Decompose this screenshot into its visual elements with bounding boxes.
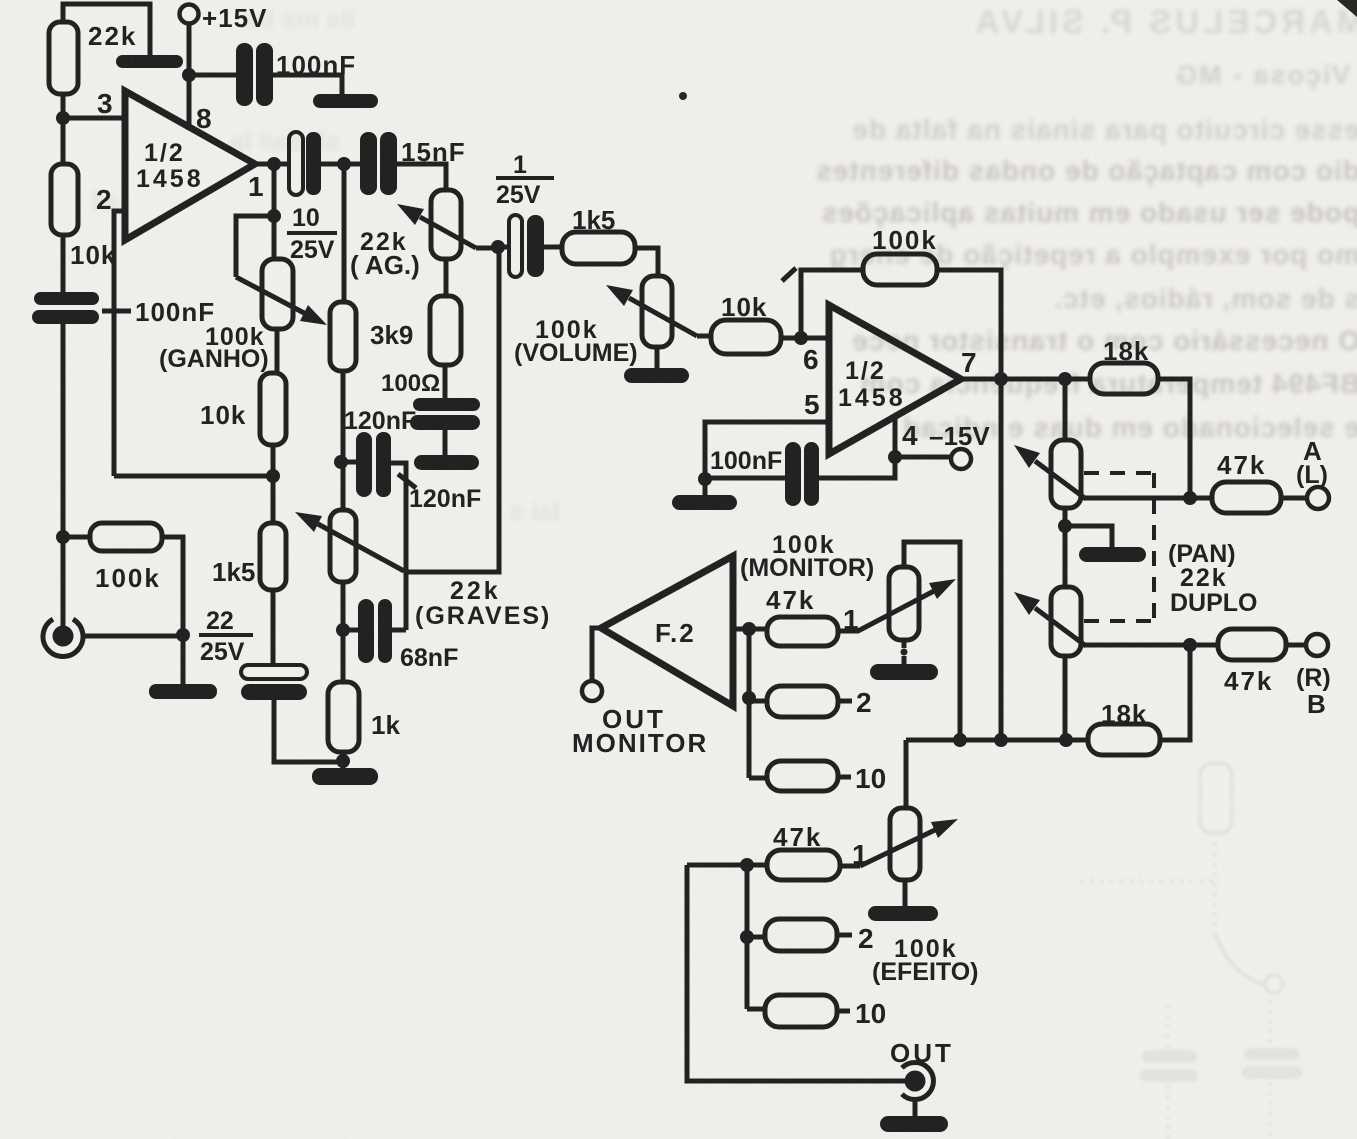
label A (L) [1296, 436, 1328, 489]
label (R) B [1296, 664, 1331, 719]
wire node to 100k [63, 535, 90, 540]
wire node to 1/25V cap [498, 245, 510, 250]
wire gain wiper loop [236, 216, 274, 277]
wire 15nF to treble pot [397, 164, 446, 190]
pin 8 stub [187, 75, 192, 130]
wire ground node down [181, 635, 186, 686]
capacitor 1/25V electrolytic [509, 215, 522, 277]
wire tap 10 stub (effect) [837, 1009, 850, 1014]
wire 68nF node down to 1k [341, 630, 346, 682]
wire node to 120nF [341, 460, 357, 465]
wire node to tap 10 (effect) [747, 1007, 765, 1012]
node mid junction [337, 157, 351, 171]
terminal OUT MONITOR [582, 681, 602, 701]
ground bar (input) [149, 684, 217, 699]
capacitor 120nF (upper) [356, 432, 391, 497]
capacitor 100nF (input coupling) [32, 292, 99, 324]
wire +15V down [187, 23, 192, 75]
node output junction [267, 157, 281, 171]
wire pan1 wiper to A node [1084, 496, 1190, 501]
wire feedback to output [937, 270, 1001, 379]
label OUT MONITOR [572, 704, 708, 758]
node monitor tap 2 junction [742, 691, 756, 705]
wire pan1 bottom to pan2 top [1063, 508, 1068, 587]
wire 120nF right plate vertical tie [391, 463, 406, 630]
wire effect pot bottom [903, 880, 908, 908]
node pan center junction [1058, 519, 1072, 533]
wire node to 100nF [705, 476, 786, 481]
label 10/25V [290, 204, 335, 264]
wire monitor taps vertical [747, 629, 752, 778]
ghost bleed wire horizontal [1080, 879, 1213, 883]
capacitor 22/25V electrolytic [241, 665, 307, 679]
wire mix row to effect pot top [904, 740, 909, 808]
scan fleck top center [679, 92, 687, 100]
wire 1k5 to volume pot top [635, 248, 658, 276]
wire bypass cap to ground [273, 75, 342, 96]
wire monitor pot bottom stub [902, 640, 907, 648]
potentiometer wiper arrow (EFEITO) [860, 830, 935, 866]
node 68nF left junction [336, 623, 350, 637]
label 1/25V [496, 151, 541, 209]
dashed gang link (PAN) [1084, 473, 1154, 621]
wire pin2 to divider junction [114, 474, 273, 479]
node divider junction [266, 469, 280, 483]
capacitor 68nF [358, 599, 392, 663]
node gain pot top junction [267, 209, 281, 223]
ghost bleed stubs [1168, 1000, 1270, 1139]
potentiometer 22k AG body [431, 190, 461, 259]
potentiometer wiper arrow (GRAVES) [318, 524, 404, 571]
op-amp U1a 1/2 1458 [125, 91, 255, 240]
potentiometer wiper arrow (PAN upper) [1035, 461, 1086, 499]
wire 1k5 to electrolytic 22/25V [271, 590, 276, 665]
resistor 100k (U1b feedback) [863, 254, 937, 285]
wire 47k to monitor wiper [838, 591, 934, 631]
ghost bleed cap 1 [1140, 1050, 1198, 1082]
potentiometer 100k VOLUME body [642, 276, 672, 347]
resistor 18k (upper) [1090, 363, 1158, 394]
potentiometer 100k EFEITO body [890, 808, 920, 880]
label (PAN) 22k DUPLO [1168, 540, 1258, 617]
wire 10k to input cap [61, 235, 66, 293]
node treble out junction [491, 240, 505, 254]
label 120nF (lower) with pointer [398, 474, 416, 488]
wire effect taps vertical [745, 865, 750, 1009]
wire 68nF right plate to vertical tie [392, 628, 406, 633]
resistor tap 10 (monitor) [767, 761, 838, 791]
resistor tap 2 (effect) [765, 919, 837, 951]
node input ground junction [176, 628, 190, 642]
wire node to gain pot top [272, 216, 277, 259]
wire output node down to gain pot node [272, 164, 277, 216]
terminal B (R) [1306, 634, 1328, 656]
node mix row bus junction [994, 733, 1008, 747]
wire node to tap 2 (monitor) [749, 699, 767, 704]
wire F.2 input to OUT MONITOR [592, 628, 601, 681]
ground bar (effect pot) [868, 906, 938, 921]
resistor 3k9 [330, 302, 356, 371]
potentiometer PAN lower body [1051, 587, 1081, 656]
ground bar (volume) [624, 368, 689, 383]
node pin5 ground junction [698, 472, 712, 486]
wire node to 10k [61, 118, 66, 164]
wire 10k to 1k5 [271, 445, 276, 523]
ground bar (22k top) [116, 55, 183, 68]
wire monitor pot top loop to mix row [904, 542, 960, 740]
wire bass pot to 68nF node [341, 582, 346, 630]
resistor tap 10 (effect) [765, 995, 837, 1027]
node monitor tap junction [742, 622, 756, 636]
input jack connector [43, 619, 83, 656]
potentiometer wiper arrow (GANHO) [236, 277, 306, 314]
label 22/25V [200, 607, 245, 666]
node 100k tap junction [56, 530, 70, 544]
wire 100nF to pin4 node [819, 457, 895, 478]
wire pan center to ground [1065, 526, 1112, 548]
resistor 1k5 [260, 523, 286, 590]
wire effect tap row [687, 863, 767, 868]
label 100k (GANHO) [159, 323, 269, 373]
node B junction [1183, 638, 1197, 652]
wire node to ground bar [703, 479, 708, 497]
node +15V junction [182, 68, 196, 82]
potentiometer 22k GRAVES body [330, 510, 356, 582]
node output/feedback junction [994, 372, 1008, 386]
wire 22k bottom to pin3 node [61, 94, 66, 118]
resistor 100k (input shunt) [90, 523, 162, 551]
op-amp U1b 1/2 1458 [829, 305, 961, 454]
ground bar (monitor pot) [870, 664, 938, 680]
wire B node down to 18k row [1160, 645, 1190, 740]
wire pan2 bottom down [1063, 656, 1068, 740]
op-amp F.2 (monitor buffer) [601, 556, 733, 706]
resistor 10k (input) [51, 164, 78, 235]
wire F.2 to 47k row [733, 627, 767, 632]
capacitor 100nF (Vcc bypass) [236, 43, 273, 106]
node effect tap 2 junction [740, 930, 754, 944]
capacitor 15nF [360, 132, 397, 195]
ground bar (pin5) [672, 495, 737, 510]
resistor 18k (lower) [1088, 724, 1160, 755]
wire bass wiper to volume bus [404, 246, 499, 572]
resistor 100R [430, 296, 461, 365]
wire pin 2 stub down [114, 211, 125, 476]
wire tap 2 stub (effect) [837, 933, 852, 938]
wire pin 7 output row [961, 377, 1090, 382]
wire node to 68nF [343, 628, 359, 633]
capacitor (100R leg) [410, 398, 480, 430]
label 22k (GRAVES) [415, 577, 551, 630]
wire cap to ground [443, 430, 448, 457]
ghost bleed resistor lower right [1200, 763, 1232, 833]
potentiometer 100k GANHO body [262, 259, 293, 329]
potentiometer wiper arrow (AG) [420, 217, 476, 248]
wire 1/25V cap to 1k5 [544, 245, 562, 250]
node bottom ground junction [336, 754, 350, 768]
terminal -15V [951, 449, 971, 469]
node effect tap junction [740, 858, 754, 872]
resistor 47k (B) [1218, 629, 1286, 660]
wire node to tap 2 (effect) [747, 935, 765, 940]
wire OUT jack to ground [913, 1099, 918, 1118]
wire pot bottom to ground [902, 656, 907, 666]
wire pin 5 stub [705, 422, 829, 479]
label 100k (EFEITO) [872, 935, 978, 986]
wire AG pot bottom to 100R [444, 259, 449, 296]
resistor 1k [328, 682, 359, 752]
wire tap 2 stub (monitor) [838, 699, 852, 704]
wire connector to ground node [82, 634, 183, 639]
resistor 1k5 (volume feed) [562, 232, 635, 264]
wire tap 10 stub (monitor) [838, 775, 851, 780]
resistor 47k (monitor) [767, 617, 838, 646]
resistor 47k (effect) [767, 850, 840, 880]
wire 18k to A node [1158, 379, 1190, 498]
wire 100k right to ground node [162, 537, 183, 635]
wire effect node to OUT jack [687, 865, 906, 1081]
ground bar (pan) [1079, 547, 1146, 562]
main bus vertical [999, 379, 1004, 740]
wire electrolytic to 15nF node [321, 162, 360, 167]
wire op-amp output [255, 162, 290, 167]
label 100k (MONITOR) [740, 531, 874, 582]
wire 22/25V cap to ground node [274, 700, 343, 762]
wire node to tap 10 (monitor) [749, 776, 767, 781]
node monitor pot bottom dot [901, 649, 908, 656]
node mix row monitor junction [953, 733, 967, 747]
node output/pan junction [1058, 372, 1072, 386]
resistor tap 2 (monitor) [767, 686, 838, 717]
resistor 47k (A) [1212, 482, 1281, 513]
ground bar (100R leg) [414, 455, 479, 470]
ground bar (bypass) [313, 94, 378, 108]
wire 22k top loop to ground [63, 4, 150, 56]
node 120nF left junction [334, 455, 348, 469]
potentiometer PAN upper body [1051, 440, 1081, 508]
wire input cap down to connector [61, 324, 66, 630]
wire pin4 node to -15V terminal [895, 455, 951, 460]
ghost bleed curve [1215, 933, 1266, 985]
node pin 6 junction [794, 331, 808, 345]
wire 47k to terminal B [1286, 643, 1307, 648]
scan corner mark top right [1337, 0, 1357, 17]
capacitor 10/25V electrolytic [289, 132, 303, 195]
ghost bleed circle [1265, 975, 1283, 993]
node mix row pan junction [1059, 733, 1073, 747]
ground bar (OUT) [880, 1116, 948, 1132]
label 22k (AG.) [350, 228, 420, 280]
potentiometer wiper arrow (PAN lower) [1035, 608, 1086, 646]
wire A node to 47k [1190, 496, 1212, 501]
wire pin 3 [63, 116, 125, 121]
stray scan tick [782, 268, 796, 281]
node pin3 junction [56, 111, 70, 125]
ground bar (tone network) [312, 768, 378, 785]
pin 4 stub [893, 416, 898, 457]
resistor 22k (input bias) [49, 22, 78, 94]
wire volume wiper to 10k [697, 334, 711, 339]
potentiometer 100k MONITOR body [889, 567, 919, 640]
faint upper-left bleed fragments [91, 4, 560, 526]
node A junction [1183, 491, 1197, 505]
wire mix row [906, 738, 1088, 743]
resistor 10k (U1b input) [711, 320, 781, 354]
bleed-through paragraph (mirrored) [815, 114, 1357, 443]
wire volume pot bottom to ground [655, 347, 660, 370]
wire 3k9 to bass pot [341, 371, 346, 510]
wire mid node down to 3k9 [342, 164, 347, 302]
wire 100R to cap [443, 365, 448, 400]
wire 47k to terminal A [1281, 496, 1308, 501]
jack OUT [902, 1063, 934, 1100]
wire 47k to effect wiper [840, 864, 860, 869]
wire +15V to bypass cap [189, 73, 236, 78]
wire AG wiper to node [476, 246, 499, 251]
wire feedback loop [801, 270, 863, 338]
capacitor 100nF (pin5 bypass) [785, 442, 819, 506]
label pointer dash 100nF [102, 309, 131, 314]
potentiometer wiper arrow (VOLUME) [629, 298, 697, 336]
terminal +15V [180, 5, 199, 24]
wire 10k to pin 6 [781, 336, 829, 341]
ghost bleed cap 2 [1242, 1048, 1302, 1079]
wire B node to 47k [1190, 643, 1218, 648]
node pin4 junction [888, 450, 902, 464]
ghost bleed wire vertical [1213, 833, 1217, 933]
label 100k (VOLUME) [514, 316, 638, 367]
terminal A (L) [1307, 487, 1329, 509]
wire gain pot to 10k [275, 329, 280, 373]
wire pan1 top [1063, 379, 1068, 440]
wire pan2 wiper to B node [1084, 643, 1190, 648]
wire 1k to ground node [341, 752, 346, 768]
resistor 10k (feedback) [260, 373, 286, 445]
